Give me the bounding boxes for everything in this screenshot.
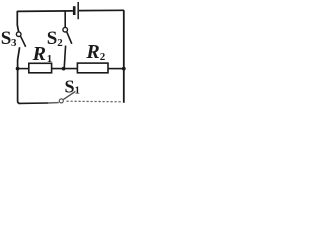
wire middle: R1 to R2 (through S2 junction) bbox=[52, 68, 78, 70]
wire bottom-left solid segment bbox=[19, 102, 49, 104]
svg-text:R: R bbox=[32, 43, 46, 65]
wire right rail bbox=[123, 10, 125, 103]
svg-text:1: 1 bbox=[47, 53, 53, 65]
wire bottom-right dotted segment bbox=[67, 100, 122, 103]
node middle junction dot bbox=[62, 67, 66, 71]
svg-text:R: R bbox=[85, 41, 99, 63]
wire S2 branch upper (top wire to S2) bbox=[64, 11, 66, 27]
wire bottom solid faded part bbox=[48, 102, 59, 104]
switch S3 contact circle bbox=[16, 32, 21, 37]
wire middle: left rail to R1 bbox=[18, 68, 29, 70]
switch S3 lever bbox=[21, 36, 26, 47]
switch S1 pivot circle bbox=[59, 99, 63, 103]
svg-text:S: S bbox=[47, 28, 58, 49]
battery cell: long thin plate (right) bbox=[77, 2, 79, 19]
resistor R1 box bbox=[29, 63, 52, 73]
svg-text:3: 3 bbox=[11, 37, 17, 49]
wire left rail lower (S3 to bottom corner) bbox=[18, 47, 20, 103]
node right junction dot bbox=[122, 67, 126, 71]
svg-text:S: S bbox=[65, 76, 75, 96]
svg-text:S: S bbox=[1, 28, 12, 49]
resistor R2 box bbox=[77, 63, 108, 73]
wire middle: R2 to right rail bbox=[108, 68, 124, 70]
svg-text:1: 1 bbox=[75, 85, 80, 96]
wire top-right segment bbox=[79, 9, 124, 11]
switch S2 lever bbox=[67, 32, 72, 44]
node left junction dot bbox=[16, 67, 20, 71]
battery cell: short thick plate (left) bbox=[73, 6, 76, 15]
switch S1 lever bbox=[63, 91, 75, 99]
wire S2 branch lower (S2 to middle junction) bbox=[64, 46, 65, 69]
svg-text:2: 2 bbox=[100, 51, 106, 63]
switch S2 contact circle bbox=[63, 27, 68, 32]
wire left rail upper (top corner to S3) bbox=[17, 11, 18, 32]
wire top-left segment bbox=[17, 10, 73, 13]
svg-text:2: 2 bbox=[57, 37, 63, 49]
